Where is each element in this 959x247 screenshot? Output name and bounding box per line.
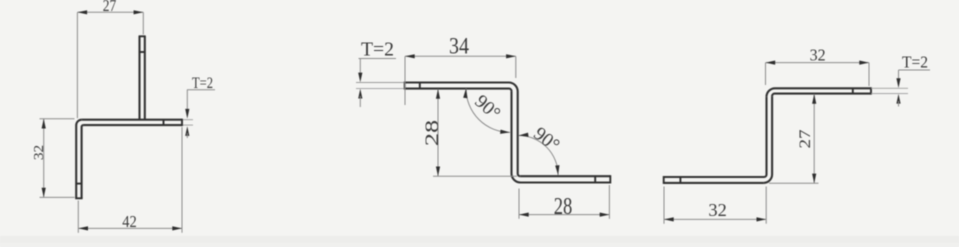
- profile P1 flange end cap: [181, 119, 183, 126]
- dimension 34 (middle figure top): [405, 34, 516, 106]
- profile P1 stem right line: [144, 36, 146, 119]
- profile P1 left leg outer line: [76, 120, 82, 199]
- dimension T=2 (middle figure): [356, 39, 404, 108]
- profile P1 stem tick: [140, 51, 145, 53]
- profile P1 leg tick: [76, 183, 81, 185]
- dimension 28 (middle figure vertical): [422, 89, 517, 176]
- profile P2 bottom flange top line: [520, 175, 610, 177]
- svg-text:32: 32: [32, 145, 47, 160]
- profile P3 bottom flange bottom line: [664, 182, 764, 184]
- svg-text:T=2: T=2: [902, 52, 928, 71]
- profile P2 top flange tick: [419, 83, 421, 89]
- dimension T=2 (left figure): [183, 75, 215, 138]
- profile P3 bottom flange end cap: [663, 176, 665, 184]
- svg-text:T=2: T=2: [361, 39, 394, 61]
- profile P2 bottom flange tick: [594, 176, 596, 182]
- profile P2 web left line: [512, 91, 521, 182]
- profile P3 top flange end cap: [870, 87, 872, 94]
- angle dimension 90 deg (middle figure lower bend): [519, 123, 564, 175]
- profile P2 web right line: [518, 92, 521, 177]
- profile P3 web right line: [764, 96, 773, 183]
- svg-text:32: 32: [708, 200, 726, 220]
- dimension 32 (right figure bottom): [664, 187, 766, 224]
- profile P3 top flange top line: [767, 88, 872, 97]
- profile P1 stem top cap: [139, 35, 146, 37]
- profile P2 top flange bottom line: [405, 89, 512, 92]
- profile P3 top flange tick: [852, 88, 854, 93]
- profile P1 left leg inner line: [82, 125, 84, 198]
- dimension T=2 (right figure): [871, 52, 930, 106]
- dimension 32 (left figure left side): [32, 119, 74, 198]
- svg-text:28: 28: [422, 120, 443, 146]
- svg-text:28: 28: [554, 194, 573, 220]
- profile P1 flange tick: [163, 120, 165, 125]
- profile P1 stem left line: [138, 36, 140, 119]
- profile P2 top flange top line: [405, 83, 518, 92]
- dimension 28 (middle figure bottom): [519, 185, 609, 220]
- dimension 27 (left figure top): [77, 0, 143, 118]
- profile P2 bottom flange end cap: [609, 175, 611, 183]
- profile P1 leg bottom cap: [75, 197, 82, 199]
- svg-text:27: 27: [103, 0, 117, 15]
- angle dimension 90 deg (middle figure upper bend): [463, 88, 510, 133]
- svg-text:27: 27: [797, 130, 814, 149]
- profile P1 flange top line: [82, 119, 182, 121]
- profile P2 top flange end cap: [404, 82, 406, 90]
- dimension 42 (left figure bottom): [78, 127, 182, 233]
- profile P3 bottom flange top line: [664, 176, 764, 178]
- profile P1 flange bottom line: [83, 124, 182, 126]
- svg-text:32: 32: [810, 46, 826, 65]
- svg-text:42: 42: [122, 212, 137, 231]
- profile P3 web left line: [764, 97, 767, 177]
- dimension 32 (right figure top): [766, 46, 870, 87]
- faint scan shading band at bottom: [0, 236, 959, 247]
- profile P2 bottom flange bottom line: [521, 181, 611, 183]
- profile P3 top flange bottom line: [772, 94, 871, 97]
- profile P3 bottom flange tick: [679, 177, 681, 183]
- dimension 27 (right figure vertical): [769, 94, 819, 183]
- svg-text:34: 34: [449, 34, 469, 59]
